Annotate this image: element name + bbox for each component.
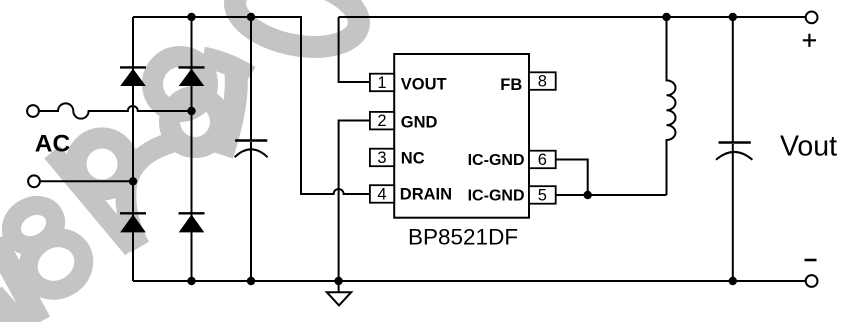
wire: cap C2 branch vertical <box>732 17 734 281</box>
svg-text:NC: NC <box>401 149 425 167</box>
wire: cap C1 branch vertical <box>250 17 252 281</box>
svg-text:IC-GND: IC-GND <box>468 188 525 205</box>
diode D1 top-left <box>120 67 146 86</box>
terminal: AC bottom <box>28 175 40 187</box>
node: AC bottom / branch1 <box>129 177 137 185</box>
plus sign <box>803 34 816 47</box>
watermark letter P bowl <box>76 138 128 190</box>
svg-text:DRAIN: DRAIN <box>400 186 452 204</box>
watermark background <box>0 0 365 322</box>
watermark corner fragment <box>0 295 40 322</box>
watermark letter B spine <box>0 240 40 322</box>
wire: bridge branch 1 vertical <box>132 17 134 281</box>
wire: bottom rail <box>133 280 806 282</box>
svg-text:VOUT: VOUT <box>401 76 447 94</box>
pin 4 box <box>370 185 394 203</box>
watermark letter S tail <box>126 141 177 247</box>
watermark letter B upper bowl <box>4 198 63 254</box>
svg-text:1: 1 <box>377 74 386 92</box>
node: top rail / C2 <box>729 13 737 21</box>
node: AC top / branch2 <box>187 107 195 115</box>
wire: AC top lead with fuse bumps and hop <box>39 103 192 118</box>
node: bottom rail / C2 <box>729 277 737 285</box>
node: pin5/pin6 junction <box>584 191 592 199</box>
IC U1 body <box>394 54 529 218</box>
terminal: output - <box>806 275 818 287</box>
wire: pin2 GND wire down to ground rail <box>339 121 370 282</box>
node: top rail / L1 <box>662 13 670 21</box>
svg-text:IC-GND: IC-GND <box>468 152 525 169</box>
diode D2 top-right <box>179 67 205 86</box>
wire: pin5 wire to inductor <box>556 194 667 196</box>
watermark letter B lower bowl <box>19 228 94 301</box>
diode D4 bottom-right <box>179 213 205 232</box>
svg-text:3: 3 <box>377 149 386 167</box>
inductor L1 <box>667 17 676 195</box>
capacitor C1 <box>235 141 268 158</box>
wire: drain feed vertical and horizontal with hop <box>301 16 370 194</box>
wire: AC bottom lead <box>40 180 133 182</box>
svg-text:5: 5 <box>538 187 547 205</box>
svg-text:4: 4 <box>377 186 386 204</box>
svg-text:GND: GND <box>401 114 438 132</box>
svg-text:8: 8 <box>538 73 547 91</box>
node: top rail / branch2 <box>187 13 195 21</box>
wire: bridge branch 2 vertical <box>191 17 193 281</box>
node: top rail / C1 <box>247 13 255 21</box>
svg-text:Vout: Vout <box>780 131 837 163</box>
pin 8 box <box>529 72 556 90</box>
diode D3 bottom-left <box>120 213 146 232</box>
wire: top rail right segment <box>339 16 806 18</box>
wire: top rail left segment <box>133 16 301 18</box>
node: bottom rail / gnd <box>334 277 342 285</box>
wire: pin1 VOUT wire <box>339 17 370 82</box>
wire: stub to ground symbol <box>338 281 340 292</box>
watermark letter S bottom curl <box>170 97 221 148</box>
pin 2 box <box>370 112 394 129</box>
minus sign <box>805 259 817 262</box>
pin 1 box <box>370 74 394 92</box>
watermark letter P stem <box>52 152 133 249</box>
capacitor C2 output <box>716 143 752 160</box>
svg-text:BP8521DF: BP8521DF <box>408 225 518 250</box>
terminal: output + <box>806 12 818 24</box>
svg-text:6: 6 <box>538 151 547 169</box>
svg-text:2: 2 <box>377 112 386 130</box>
ground <box>327 292 351 305</box>
node: bottom rail / branch2 <box>187 277 195 285</box>
svg-text:FB: FB <box>500 76 522 94</box>
svg-text:AC: AC <box>35 131 71 158</box>
pin 5 box <box>529 186 556 204</box>
pin 6 box <box>529 151 556 169</box>
watermark letter S arm <box>203 57 250 76</box>
wire: pin6 wire <box>556 160 588 196</box>
watermark ring O <box>229 0 366 57</box>
watermark letter S right sweep <box>222 74 236 155</box>
node: bottom rail / C1 <box>247 277 255 285</box>
pin 3 box <box>370 149 394 167</box>
watermark letter S top curl <box>153 57 208 112</box>
terminal: AC top <box>27 105 39 117</box>
